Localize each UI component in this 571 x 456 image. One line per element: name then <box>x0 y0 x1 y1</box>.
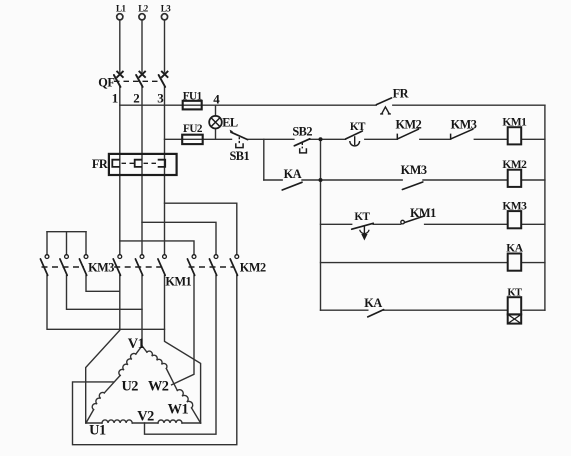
svg-text:W2: W2 <box>148 379 169 395</box>
svg-text:FR: FR <box>393 87 409 101</box>
svg-text:FR: FR <box>92 157 108 171</box>
svg-text:L1: L1 <box>116 3 127 13</box>
svg-text:SB1: SB1 <box>229 149 249 163</box>
svg-text:SB2: SB2 <box>292 124 312 138</box>
svg-text:FU1: FU1 <box>183 91 203 103</box>
svg-text:KT: KT <box>350 121 366 133</box>
svg-text:FU2: FU2 <box>183 123 203 135</box>
svg-text:KT: KT <box>507 287 522 298</box>
svg-text:KM2: KM2 <box>395 117 421 131</box>
svg-text:4: 4 <box>213 92 220 107</box>
svg-text:U1: U1 <box>89 423 106 439</box>
svg-text:U2: U2 <box>121 379 138 395</box>
svg-text:EL: EL <box>222 115 238 129</box>
svg-text:KM1: KM1 <box>165 274 191 288</box>
svg-text:KA: KA <box>364 296 382 310</box>
svg-text:KM3: KM3 <box>88 260 114 274</box>
svg-text:L2: L2 <box>138 3 149 13</box>
svg-text:KM3: KM3 <box>401 163 427 177</box>
svg-text:KM1: KM1 <box>410 206 436 220</box>
svg-text:QF: QF <box>98 75 114 89</box>
svg-text:KA: KA <box>506 243 523 255</box>
svg-text:KM3: KM3 <box>451 117 477 131</box>
svg-text:KM2: KM2 <box>240 260 266 274</box>
svg-text:KM2: KM2 <box>502 159 527 171</box>
svg-text:KA: KA <box>284 167 302 181</box>
svg-text:KM3: KM3 <box>502 200 527 212</box>
svg-text:V2: V2 <box>137 409 154 425</box>
svg-text:V1: V1 <box>128 336 145 352</box>
svg-text:W1: W1 <box>168 402 189 418</box>
svg-text:1: 1 <box>112 90 118 105</box>
svg-text:2: 2 <box>133 90 139 105</box>
svg-text:L3: L3 <box>161 3 172 13</box>
svg-text:KM1: KM1 <box>502 116 527 128</box>
svg-text:3: 3 <box>157 90 164 105</box>
svg-text:KT: KT <box>354 211 370 223</box>
